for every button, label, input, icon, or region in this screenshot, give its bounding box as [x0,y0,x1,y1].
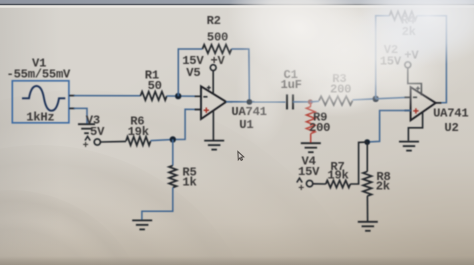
svg-text:UA741: UA741 [433,106,468,120]
wire R3 to node D [353,99,376,100]
resistor R1 [140,92,166,101]
U2 ground stem [408,112,422,141]
wire V1- to ground [74,108,87,123]
U1 supply + marker [207,86,211,90]
wire C1 to node C [293,101,310,103]
svg-text:V5: V5 [186,66,200,80]
wire R5 to ground [142,188,173,220]
ground under R8 [358,221,378,223]
wire U2 non-inverting input to node E [367,111,410,143]
wire V4 to R7 [313,183,326,185]
V1 sine wave [22,86,65,111]
wire R1 to U1 inverting input [167,95,201,97]
ground under U1 [204,140,224,142]
U2 supply + marker [416,86,420,90]
resistor R9 (red) [306,107,315,134]
U1 ground stem [212,111,214,140]
svg-text:U2: U2 [444,121,458,135]
svg-text:19k: 19k [128,125,149,139]
svg-text:2k: 2k [376,179,390,193]
wire node D to U2 inverting input [376,97,411,99]
svg-text:1k: 1k [182,176,196,190]
source V3 arrow + circle terminal [85,136,90,140]
wire U1 output [226,101,285,103]
svg-text:-55m/55mV: -55m/55mV [7,67,72,81]
wire node E to R8 [366,142,368,171]
U2 supply stem [408,68,422,95]
wire V3 to R6 [100,140,126,143]
wire U2 feedback left leg [376,16,390,99]
node A junction dot [175,93,181,99]
U2 non-inverting input marker (red +) [413,108,418,113]
resistor R2 [202,45,231,54]
svg-text:15V: 15V [298,165,320,179]
wire R7 to node E [350,142,367,184]
capacitor C1 [286,94,288,109]
svg-text:1kHz: 1kHz [26,110,54,124]
resistor R3 [319,96,353,105]
U1 supply stem [212,71,214,95]
ground under R5 [132,219,152,221]
svg-text:200: 200 [309,121,330,135]
U2 input/output pin stubs [404,97,441,110]
ground at V3 [78,123,95,125]
U1 input/output pin stubs [195,96,233,109]
mouse cursor [238,152,244,161]
resistor R5 [169,166,177,188]
node U1 output junction dot [247,99,253,105]
wire feedback right leg [232,49,250,102]
node C junction dot (red) [308,99,313,104]
svg-text:+: + [298,184,304,195]
resistor R6 [126,137,151,146]
node E junction dot [364,139,370,145]
wire V1+ to R1 [74,95,140,97]
wire node C to R9 (red) [310,102,312,107]
U2 supply pin circle [405,62,411,68]
source V4 arrow + circle terminal [297,178,302,182]
wire U2 feedback right leg [417,16,446,103]
ground under U2 [399,141,419,143]
node B junction dot [170,136,176,142]
svg-text:5V: 5V [90,125,105,139]
U1 inverting input marker [203,96,207,98]
voltage source V1 box [12,81,69,123]
svg-text:+: + [83,141,89,152]
ground under R9 [301,142,321,144]
op-amp U2 triangle [411,87,436,120]
resistor R4 [389,12,417,21]
wire R8 to ground [366,196,368,221]
resistor R7 [326,180,351,187]
U1 non-inverting input marker (red +) [204,108,209,113]
V1 terminal pins [69,95,75,97]
wire node B to R5 [172,140,174,166]
U1 supply pin circle [210,65,216,71]
wire node C to R3 [310,100,319,103]
wire R6 to node B [151,109,201,140]
resistor R8 [363,172,372,197]
node D junction dot [373,96,379,102]
op-amp U1 triangle [201,86,226,119]
wire feedback left leg [178,49,202,96]
wire R9 to ground (red) [310,134,312,143]
U2 inverting input marker [413,96,417,98]
svg-text:19k: 19k [327,168,348,182]
svg-text:50: 50 [148,79,162,93]
